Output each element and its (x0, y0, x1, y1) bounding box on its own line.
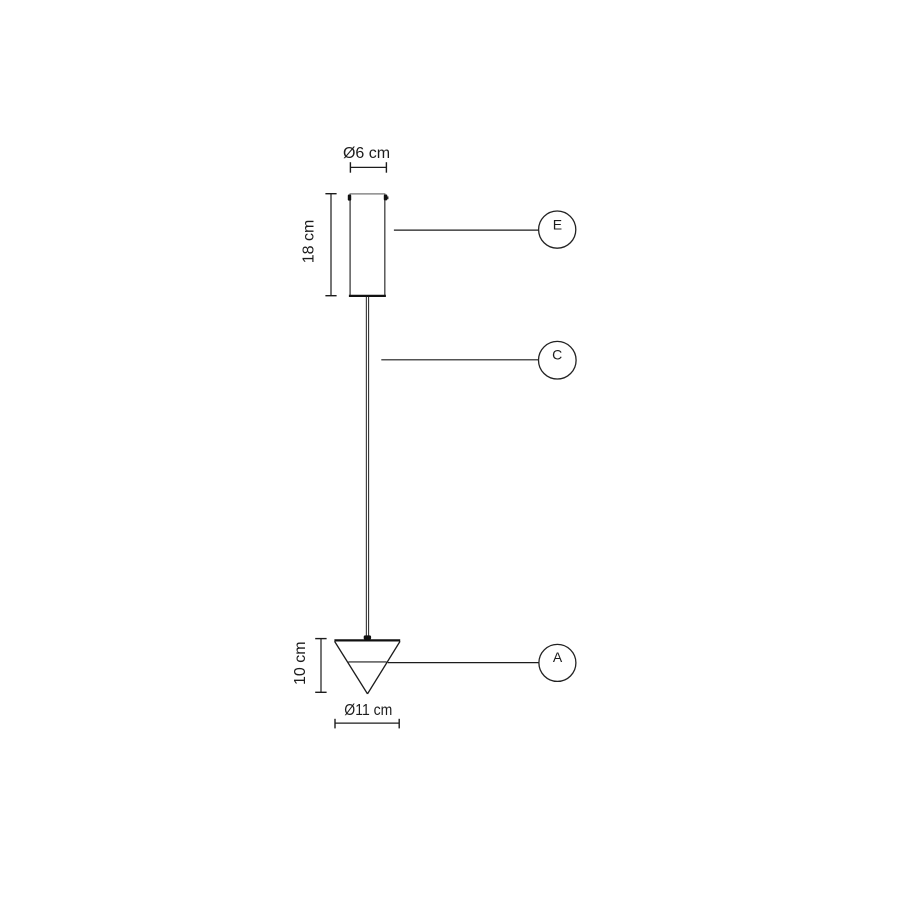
svg-text:Ø11 cm: Ø11 cm (344, 702, 392, 719)
suspension cable (double line) (366, 297, 368, 636)
leader line A (388, 662, 539, 664)
callout circle C (539, 341, 577, 379)
cone shade top edge (334, 639, 400, 641)
canopy right clip (384, 195, 388, 201)
canopy cylinder body (349, 194, 386, 296)
callout circle A (539, 644, 576, 681)
leader line C (381, 359, 538, 361)
callout circle E (539, 211, 576, 248)
cable grip nub (364, 635, 371, 639)
dimension line 18 cm (325, 194, 336, 296)
svg-text:C: C (552, 347, 562, 363)
dimension line Ø6 (350, 162, 386, 173)
svg-text:E: E (553, 217, 562, 233)
cone mid seam (348, 661, 386, 663)
svg-text:18 cm: 18 cm (301, 220, 318, 264)
dimension line 10 cm (315, 639, 326, 693)
svg-text:Ø6 cm: Ø6 cm (343, 145, 390, 162)
dimension line Ø11 (335, 719, 399, 729)
leader line E (394, 229, 539, 231)
svg-text:10 cm: 10 cm (292, 641, 309, 685)
svg-text:A: A (553, 649, 563, 665)
cone shade sides (335, 641, 400, 694)
canopy left clip (348, 195, 351, 201)
